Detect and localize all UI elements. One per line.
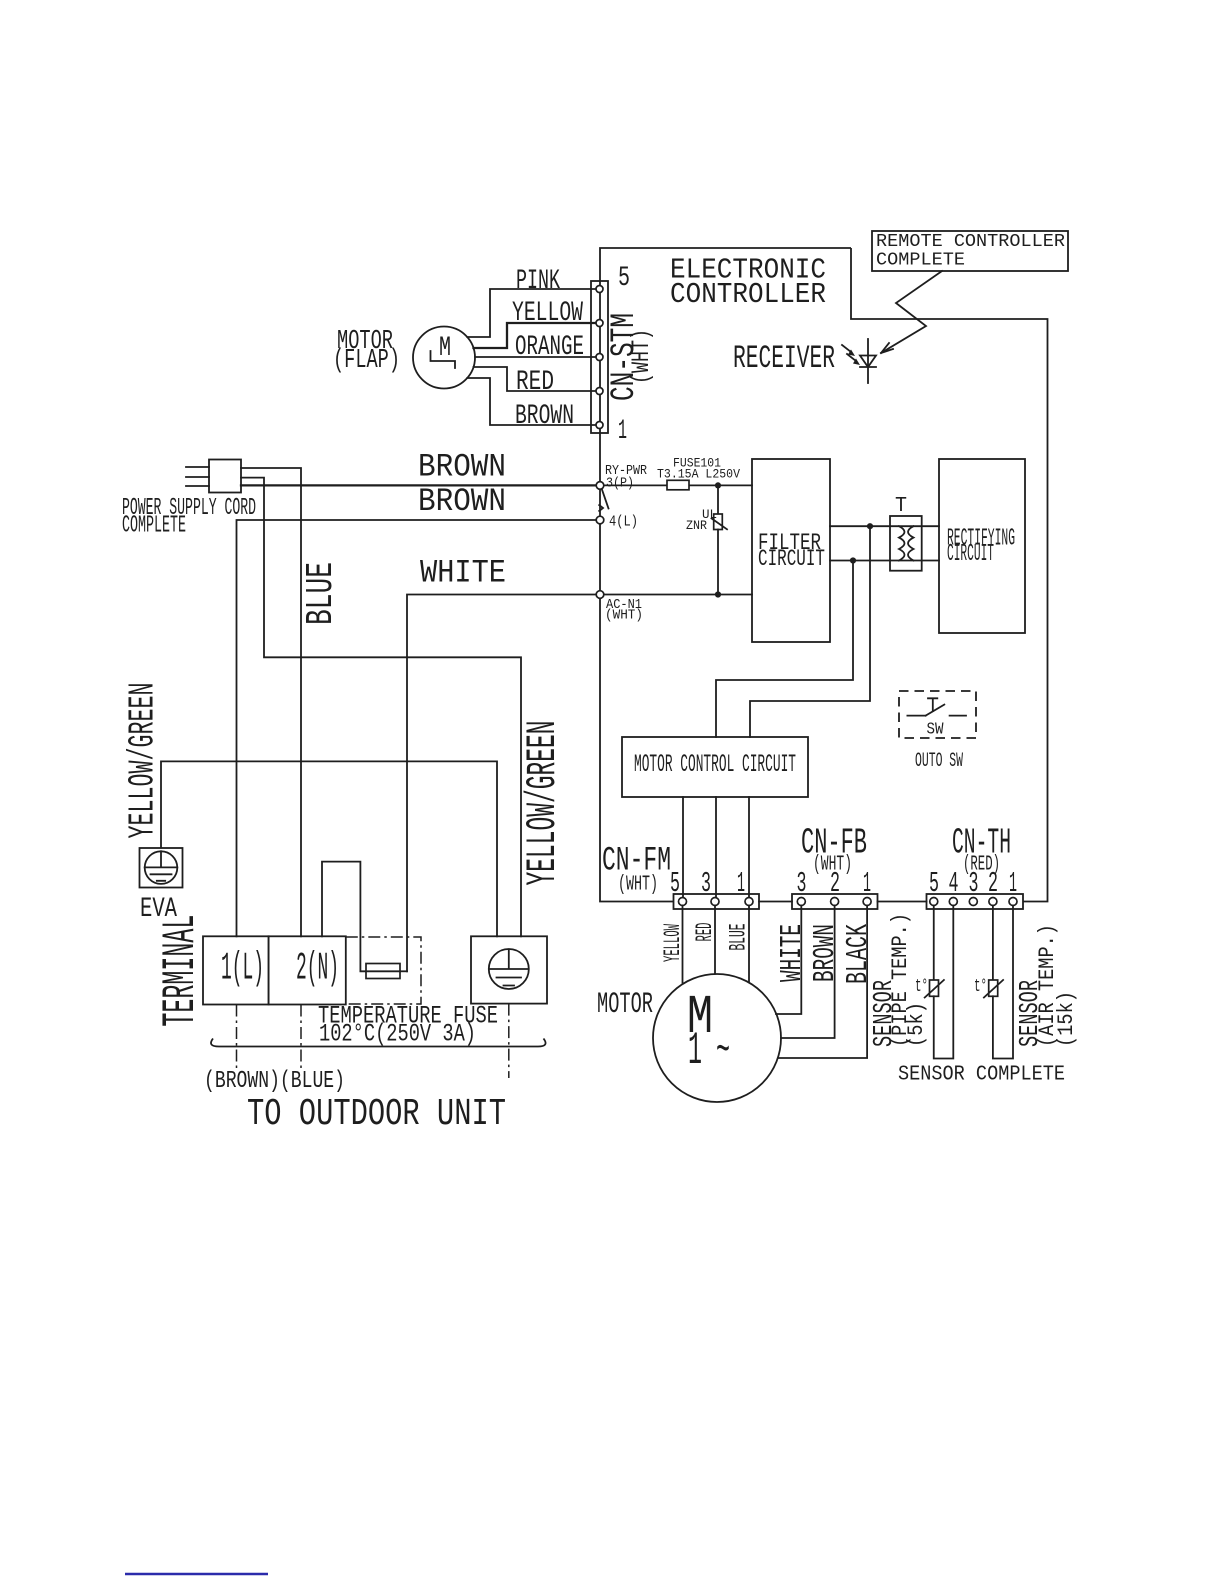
- svg-text:2: 2: [830, 867, 840, 900]
- zigzag leader arrow from remote controller to receiver: [881, 271, 942, 353]
- electronic controller board outline (right wall): [851, 248, 1048, 902]
- CN-FB pin numbers 3 2 1: [797, 867, 872, 900]
- wire YELLOW/GREEN plug earth to ground terminal: [241, 478, 521, 937]
- svg-text:MOTOR: MOTOR: [597, 988, 653, 1022]
- label SENSOR (AIR TEMP.) (15k): [1016, 924, 1079, 1047]
- svg-text:5: 5: [618, 263, 630, 294]
- svg-text:TO OUTDOOR UNIT: TO OUTDOOR UNIT: [247, 1093, 506, 1136]
- receiver photodiode D1: [860, 339, 876, 383]
- wire RED CN-FM pin 3 to fan motor: [714, 906, 716, 974]
- motor control circuit block: [622, 737, 808, 797]
- svg-text:1(L): 1(L): [221, 947, 264, 991]
- svg-text:WHITE: WHITE: [420, 555, 506, 592]
- label ORANGE: [515, 332, 584, 363]
- wire BLACK CN-FB pin 1 to fan motor: [778, 906, 867, 1059]
- svg-text:t°: t°: [915, 977, 928, 997]
- infrared ray arrows into receiver: [842, 345, 860, 365]
- svg-text:5: 5: [670, 867, 680, 900]
- svg-text:(5k): (5k): [904, 1002, 929, 1047]
- CN-STM pin number 1: [618, 416, 627, 447]
- receiver label: [733, 340, 835, 377]
- varistor ZNR (UL): [686, 485, 727, 594]
- wire AC-N1 to filter circuit: [604, 594, 752, 596]
- relay contact arm P: [599, 489, 609, 512]
- svg-text:CONTROLLER: CONTROLLER: [670, 278, 826, 311]
- label RED (fan): [692, 923, 718, 942]
- connector CN-STM (WHT): [591, 281, 608, 433]
- label WHITE: [420, 555, 506, 592]
- auto switch SW dashed enclosure: [899, 691, 976, 738]
- svg-text:(15k): (15k): [1054, 991, 1079, 1047]
- EVA earth ground symbol: [140, 848, 183, 888]
- wire filter to rectifier (upper): [830, 525, 939, 527]
- svg-text:SENSOR COMPLETE: SENSOR COMPLETE: [898, 1064, 1065, 1087]
- wire PINK flap motor to CN-STM pin 5: [467, 289, 596, 337]
- label BROWN: [515, 401, 574, 432]
- svg-text:BLUE: BLUE: [726, 924, 752, 951]
- temperature fuse dash-dot enclosure: [346, 937, 421, 1004]
- CN-TH pin numbers 5 4 3 2 1: [929, 867, 1017, 900]
- svg-text:2(N): 2(N): [296, 947, 339, 991]
- svg-text:YELLOW: YELLOW: [660, 924, 686, 962]
- remote controller complete box: [872, 231, 1068, 271]
- svg-text:5: 5: [929, 867, 939, 900]
- svg-text:PINK: PINK: [516, 266, 560, 297]
- motor (flap) label: [333, 327, 400, 376]
- svg-text:3: 3: [701, 867, 711, 900]
- svg-text:BLUE: BLUE: [300, 562, 343, 625]
- svg-text:1: 1: [863, 867, 871, 900]
- wire BROWN flap motor to CN-STM pin 1: [467, 378, 596, 425]
- wire ORANGE flap motor to CN-STM pin 3: [475, 356, 596, 358]
- svg-text:1: 1: [1009, 867, 1017, 900]
- svg-text:3(P): 3(P): [606, 476, 634, 492]
- transformer T: [890, 495, 922, 571]
- wire upper rail to motor control circuit: [750, 526, 870, 737]
- label YELLOW/GREEN (left): [123, 683, 164, 839]
- svg-text:1 ~: 1 ~: [688, 1025, 730, 1077]
- label BLUE (fan): [726, 924, 752, 951]
- svg-text:YELLOW/GREEN: YELLOW/GREEN: [519, 721, 567, 886]
- svg-text:WHITE: WHITE: [775, 924, 810, 982]
- label PINK: [516, 266, 560, 297]
- wire 2(N) to temperature fuse loop: [322, 862, 366, 972]
- label TERMINAL: [155, 915, 207, 1027]
- label SENSOR COMPLETE: [898, 1064, 1065, 1087]
- svg-text:BROWN: BROWN: [515, 401, 574, 432]
- ground terminal block: [471, 936, 547, 1003]
- svg-text:SW: SW: [927, 721, 945, 740]
- label BLACK (fan): [841, 924, 876, 984]
- svg-text:102°C(250V 3A): 102°C(250V 3A): [319, 1020, 476, 1049]
- wire WHITE AC-N1 to temperature fuse: [407, 595, 596, 972]
- wire BLUE plug to terminal 2(N): [241, 468, 301, 936]
- power supply cord label: [122, 495, 256, 540]
- svg-text:BROWN: BROWN: [808, 924, 843, 982]
- wires motor control circuit to CN-FM pins: [683, 797, 749, 898]
- wire YELLOW/GREEN EVA ground to ground terminal: [161, 761, 497, 936]
- svg-text:(WHT): (WHT): [605, 608, 643, 624]
- svg-text:COMPLETE: COMPLETE: [122, 513, 186, 540]
- CN-STM pin number 5: [618, 263, 630, 294]
- wire lower rail to motor control circuit: [716, 561, 853, 738]
- svg-text:1: 1: [737, 867, 745, 900]
- brace to outdoor unit: [211, 1039, 546, 1047]
- svg-text:4: 4: [949, 867, 959, 900]
- rectifying circuit block: [939, 459, 1025, 633]
- svg-text:RED: RED: [516, 367, 554, 398]
- fan motor M1: [653, 974, 781, 1102]
- wire BROWN 4(L) to terminal 1(L): [237, 520, 597, 936]
- svg-text:ORANGE: ORANGE: [515, 332, 584, 363]
- motor (flap) M2: [413, 327, 475, 389]
- label BROWN (upper): [418, 449, 506, 486]
- terminal block 1(L): [203, 936, 269, 1004]
- dash-dot lead below 1(L) (BROWN): [236, 1005, 238, 1069]
- label BROWN (lower): [418, 483, 506, 520]
- connector CN-FM (WHT): [674, 894, 760, 909]
- wall segment between CN-FB and CN-TH: [878, 901, 927, 903]
- junction node lower rail: [850, 557, 856, 563]
- temperature fuse label: [318, 1002, 498, 1049]
- EVA label: [140, 894, 177, 925]
- dash-dot lead below 2(N) (BLUE): [300, 1005, 302, 1069]
- wire BROWN CN-FB pin 2 to fan motor: [781, 906, 835, 1039]
- CN-STM name label: [606, 313, 656, 401]
- wire BROWN plug to RY-PWR 3(P): [241, 484, 596, 486]
- svg-text:(WHT): (WHT): [627, 329, 656, 384]
- power supply cord plug: [186, 460, 241, 493]
- sensor air temp thermistor TH2: [974, 906, 1013, 1059]
- label BLUE: [300, 562, 343, 625]
- svg-text:BLACK: BLACK: [841, 924, 876, 984]
- fan motor label MOTOR: [597, 988, 653, 1022]
- label SENSOR (PIPE TEMP.) (5k): [870, 913, 929, 1047]
- wire YELLOW flap motor to CN-STM pin 4: [474, 323, 597, 348]
- wire RED flap motor to CN-STM pin 2: [474, 367, 597, 391]
- svg-text:YELLOW: YELLOW: [512, 298, 583, 329]
- wall segment between CN-FM and CN-FB: [759, 901, 792, 903]
- svg-text:1: 1: [618, 416, 627, 447]
- svg-text:(FLAP): (FLAP): [333, 346, 400, 376]
- svg-text:T3.15A L250V: T3.15A L250V: [657, 467, 740, 482]
- wire YELLOW CN-FM pin 5 to fan motor: [682, 906, 684, 983]
- wire WHITE CN-FB pin 3 to fan motor: [776, 906, 801, 1015]
- electronic controller board outline (top/left/bottom-left walls): [600, 248, 851, 902]
- connector CN-FB (WHT): [792, 894, 878, 909]
- svg-text:(WHT): (WHT): [618, 874, 658, 897]
- wire 3(P) to filter circuit through FUSE101: [604, 484, 752, 486]
- connector CN-TH (RED): [927, 894, 1024, 909]
- svg-text:REMOTE CONTROLLER: REMOTE CONTROLLER: [876, 232, 1065, 252]
- CN-FB label: [801, 823, 867, 877]
- terminal RY-PWR 3(P): [596, 463, 647, 492]
- label TO OUTDOOR UNIT: [247, 1093, 506, 1136]
- title ELECTRONIC CONTROLLER: [670, 254, 826, 312]
- terminal AC-N1 (WHT): [596, 591, 643, 624]
- CN-TH label: [952, 823, 1011, 877]
- svg-text:t°: t°: [974, 977, 987, 997]
- junction node ZNR to AC-N1 line: [715, 591, 721, 597]
- junction node fuse output: [715, 482, 721, 488]
- svg-text:3: 3: [969, 867, 979, 900]
- svg-text:4(L): 4(L): [609, 514, 638, 531]
- label RED: [516, 367, 554, 398]
- label WHITE (fan): [775, 924, 810, 982]
- label YELLOW/GREEN (right): [519, 721, 567, 886]
- junction node upper rail: [867, 523, 873, 529]
- svg-text:BROWN: BROWN: [418, 449, 506, 486]
- svg-text:RED: RED: [692, 923, 718, 942]
- svg-text:ZNR: ZNR: [686, 518, 707, 533]
- wire filter to rectifier (lower): [830, 560, 939, 562]
- sensor pipe temp thermistor TH1: [915, 906, 953, 1059]
- svg-text:3: 3: [797, 867, 807, 900]
- svg-text:COMPLETE: COMPLETE: [876, 251, 965, 271]
- terminal block 2(N): [269, 936, 346, 1004]
- temperature fuse 102C: [366, 964, 407, 979]
- svg-text:MOTOR CONTROL CIRCUIT: MOTOR CONTROL CIRCUIT: [634, 750, 796, 779]
- terminal 4(L): [596, 514, 638, 531]
- svg-text:T: T: [895, 495, 907, 518]
- svg-text:(BROWN)(BLUE): (BROWN)(BLUE): [204, 1068, 345, 1095]
- fuse FUSE101 T3.15A L250V: [657, 456, 740, 490]
- svg-text:YELLOW/GREEN: YELLOW/GREEN: [123, 683, 164, 839]
- label YELLOW: [512, 298, 583, 329]
- svg-text:RECEIVER: RECEIVER: [733, 340, 835, 377]
- wire BLUE CN-FM pin 1 to fan motor: [748, 906, 750, 982]
- svg-text:2: 2: [988, 867, 998, 900]
- label BROWN (fan): [808, 924, 843, 982]
- svg-text:TERMINAL: TERMINAL: [155, 915, 207, 1027]
- label OUTO SW: [915, 750, 963, 773]
- switch SW contacts: [907, 698, 966, 739]
- label (BROWN)(BLUE): [204, 1068, 345, 1095]
- svg-text:CIRCUIT: CIRCUIT: [947, 541, 994, 568]
- dash-dot lead below ground terminal: [508, 1004, 510, 1078]
- CN-FM label: [602, 843, 671, 897]
- svg-text:M: M: [439, 333, 451, 364]
- blue footer line: [125, 1573, 268, 1576]
- svg-text:OUTO SW: OUTO SW: [915, 750, 963, 773]
- filter circuit block: [752, 459, 830, 642]
- svg-text:CIRCUIT: CIRCUIT: [758, 546, 825, 572]
- CN-FM pin numbers 5 3 1: [670, 867, 745, 900]
- label YELLOW (fan): [660, 924, 686, 962]
- svg-text:BROWN: BROWN: [418, 483, 506, 520]
